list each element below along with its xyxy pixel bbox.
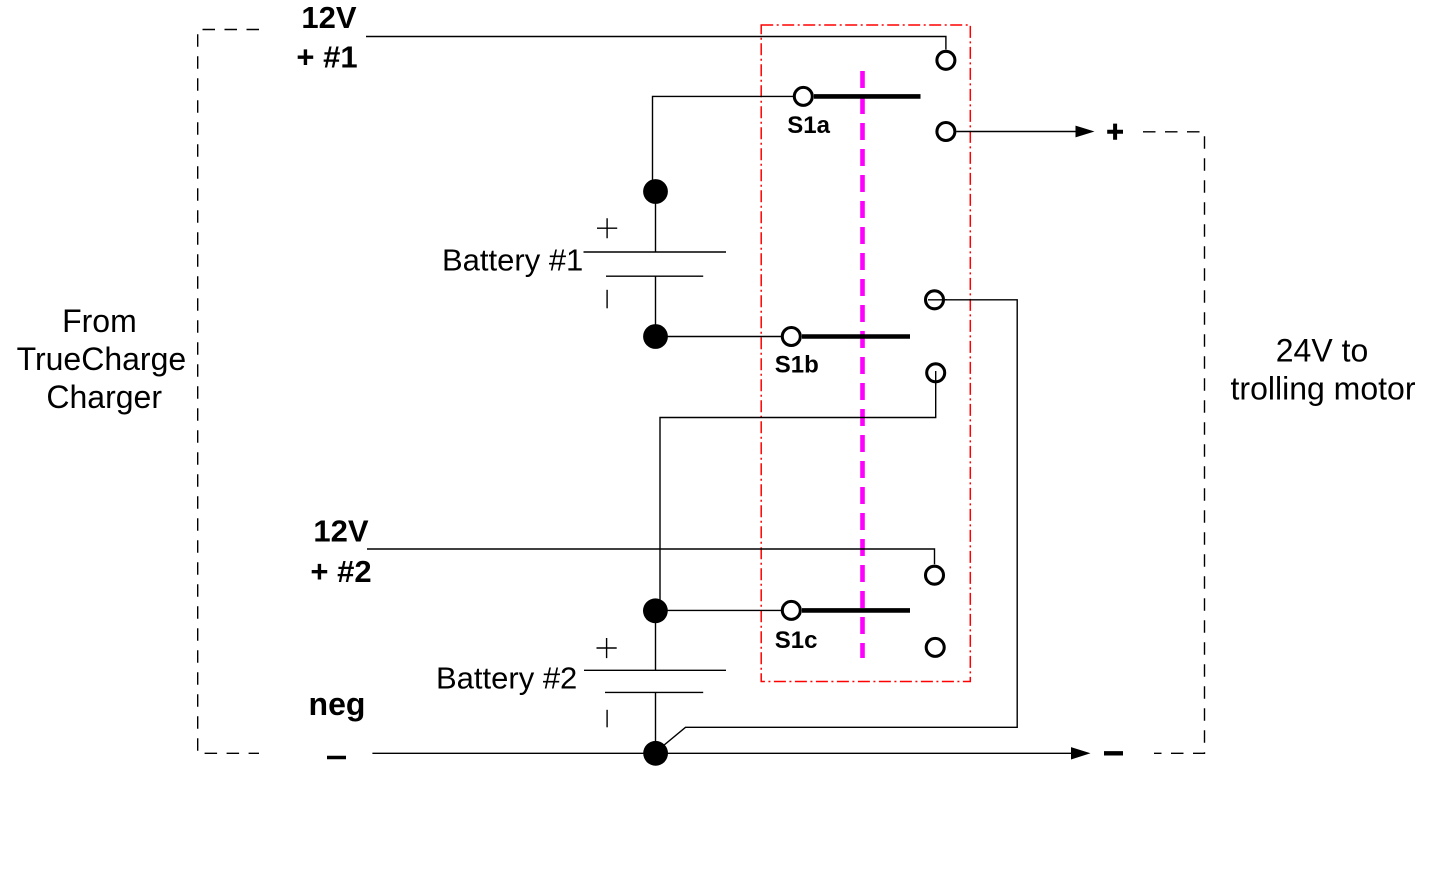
svg-text:From: From (62, 303, 137, 339)
terminal circle S1b lower (927, 364, 945, 382)
wire: negative bus (372, 752, 1072, 754)
svg-text:TrueCharge: TrueCharge (17, 341, 187, 377)
arrowhead negative output (1071, 747, 1091, 759)
wire: battery #1 negative to node B (655, 276, 657, 330)
terminal circle S1c lower (926, 638, 944, 656)
battery B1 plus mark (597, 218, 617, 238)
wire: S1a lower throw to positive output (956, 131, 1078, 133)
svg-text:S1c: S1c (775, 627, 818, 654)
wire stub through S1b upper terminal (928, 299, 947, 301)
trolling motor dashed bracket (right) (1143, 132, 1205, 754)
battery B2 top plate (584, 669, 726, 671)
wire: 12V + #2 feed to S1c upper throw (367, 549, 935, 564)
battery B1 minus mark (606, 290, 608, 309)
battery B2 plus mark (597, 638, 617, 658)
terminal circle S1a output (937, 123, 955, 141)
svg-text:S1a: S1a (787, 112, 830, 139)
switch S1a pole circle (794, 87, 812, 105)
node D junction dot (643, 741, 668, 766)
node A junction dot (643, 179, 668, 204)
switch S1a blade (814, 94, 921, 99)
svg-text:24V to: 24V to (1276, 332, 1369, 368)
switch gang line (magenta dashed) (860, 71, 865, 658)
positive output plus symbol (1107, 124, 1123, 140)
svg-text:S1b: S1b (775, 351, 819, 378)
wire: node B to S1b pole (661, 336, 782, 338)
switch S1b pole circle (782, 328, 800, 346)
svg-text:Charger: Charger (46, 379, 162, 415)
node B junction dot (643, 324, 668, 349)
svg-text:12V: 12V (313, 514, 368, 549)
wire: S1b lower throw to battery #2 positive node C (660, 384, 936, 601)
svg-text:+ #1: + #1 (296, 39, 357, 74)
switch S1c blade (802, 608, 910, 613)
battery B2 bottom plate (605, 691, 703, 693)
wire: S1b upper throw to negative output bus (658, 300, 1018, 751)
neg wire minus label (327, 756, 346, 759)
wire: node A to battery #1 top plate (655, 188, 657, 252)
switch S1c pole circle (782, 601, 800, 619)
wire: node C to S1c pole (661, 609, 782, 611)
terminal circle S1b upper (926, 291, 944, 309)
charger dashed bracket (left) (198, 30, 259, 754)
svg-text:Battery #1: Battery #1 (442, 243, 583, 278)
switch enclosure box S1 (red dash-dot) (761, 25, 970, 682)
svg-text:12V: 12V (301, 0, 356, 35)
battery B1 top plate (584, 251, 727, 253)
battery B1 bottom plate (606, 275, 703, 277)
negative output minus symbol (1104, 751, 1123, 755)
wire stub through S1b lower terminal (935, 371, 937, 385)
svg-text:+ #2: + #2 (310, 554, 371, 589)
terminal circle S1c upper (926, 566, 944, 584)
switch S1b blade (802, 334, 910, 339)
wire: S1a pole to battery #1 positive (653, 96, 794, 185)
wire: battery #2 negative to node D (655, 692, 657, 748)
battery B2 minus mark (606, 710, 608, 728)
terminal circle S1a common (937, 51, 955, 69)
svg-text:neg: neg (309, 686, 366, 722)
svg-text:Battery #2: Battery #2 (436, 661, 577, 696)
svg-text:trolling motor: trolling motor (1231, 370, 1416, 406)
wire: 12V + #1 feed to switch common (366, 37, 946, 50)
arrowhead positive output (1076, 126, 1095, 138)
wire: node C to battery #2 top plate (655, 617, 657, 670)
node C junction dot (643, 598, 668, 623)
